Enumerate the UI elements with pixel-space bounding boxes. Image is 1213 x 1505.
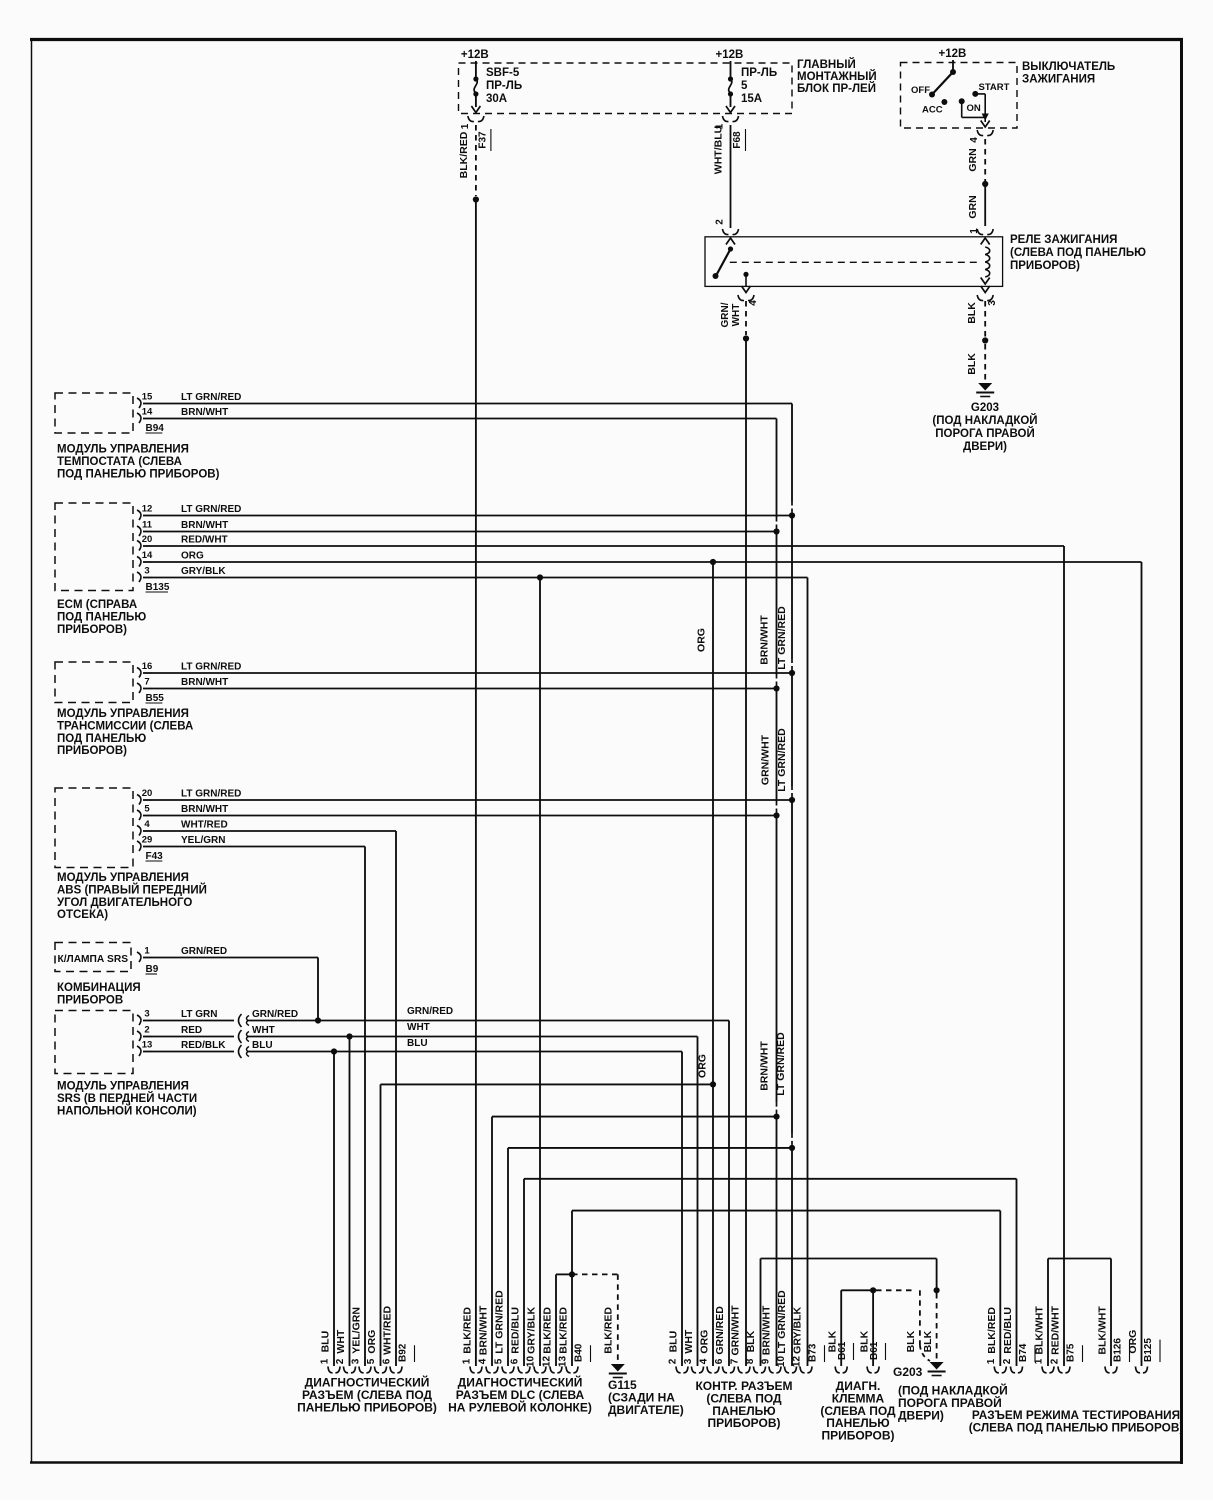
svg-text:B9: B9 [146,964,159,975]
svg-text:1: 1 [460,123,471,129]
svg-text:B94: B94 [146,423,165,434]
svg-text:BLK/RED: BLK/RED [458,131,470,178]
svg-text:3: 3 [144,1009,149,1020]
svg-text:ORG: ORG [696,628,708,652]
svg-text:YEL/GRN: YEL/GRN [351,1307,363,1354]
svg-text:6: 6 [382,1358,393,1364]
svg-text:МОДУЛЬ УПРАВЛЕНИЯ: МОДУЛЬ УПРАВЛЕНИЯ [57,872,189,884]
svg-text:LT GRN/RED: LT GRN/RED [181,504,241,515]
svg-text:6: 6 [714,1358,725,1364]
svg-text:BRN/WHT: BRN/WHT [181,407,228,418]
svg-text:3: 3 [144,566,149,577]
svg-text:1: 1 [1034,1358,1045,1364]
svg-text:ДВЕРИ): ДВЕРИ) [898,1408,944,1422]
svg-text:8: 8 [745,1358,756,1364]
svg-text:3: 3 [987,300,998,306]
svg-text:4: 4 [699,1358,710,1364]
svg-text:WHT/RED: WHT/RED [382,1305,394,1354]
svg-text:BRN/WHT: BRN/WHT [759,615,771,665]
svg-text:14: 14 [142,407,153,418]
svg-text:B55: B55 [146,693,165,704]
svg-text:13: 13 [558,1356,569,1368]
svg-text:GRN/RED: GRN/RED [252,1009,298,1020]
svg-text:BRN/WHT: BRN/WHT [761,1305,773,1355]
svg-text:BLK/WHT: BLK/WHT [1097,1306,1109,1355]
svg-text:УГОЛ ДВИГАТЕЛЬНОГО: УГОЛ ДВИГАТЕЛЬНОГО [57,897,192,909]
svg-text:WHT/BLU: WHT/BLU [713,126,725,174]
svg-text:ORG: ORG [1127,1330,1139,1354]
svg-text:12: 12 [542,1356,553,1368]
svg-text:7: 7 [730,1358,741,1364]
svg-text:BLU: BLU [407,1038,428,1049]
svg-text:BLK: BLK [966,353,978,375]
svg-text:(ПОД НАКЛАДКОЙ: (ПОД НАКЛАДКОЙ [932,414,1037,427]
svg-text:WHT: WHT [335,1329,347,1353]
svg-text:BLK/RED: BLK/RED [542,1307,554,1354]
svg-text:F68: F68 [732,131,743,149]
svg-text:ТРАНСМИССИИ (СЛЕВА: ТРАНСМИССИИ (СЛЕВА [57,720,193,732]
svg-text:RED/BLK: RED/BLK [181,1040,226,1051]
svg-text:ЗАЖИГАНИЯ: ЗАЖИГАНИЯ [1022,74,1095,86]
svg-text:3: 3 [683,1358,694,1364]
svg-text:ГЛАВНЫЙ: ГЛАВНЫЙ [797,58,856,71]
svg-text:GRY/BLK: GRY/BLK [792,1307,804,1354]
svg-text:ORG: ORG [699,1330,711,1354]
svg-text:GRN/WHT: GRN/WHT [760,734,772,785]
svg-text:B73: B73 [808,1343,819,1362]
svg-text:BLK/RED: BLK/RED [986,1307,998,1354]
svg-text:12: 12 [142,504,153,515]
svg-text:2: 2 [1050,1358,1061,1364]
svg-text:WHT: WHT [683,1329,695,1353]
svg-text:10: 10 [526,1356,537,1368]
svg-text:OFF: OFF [911,85,930,96]
svg-text:ПРИБОРОВ): ПРИБОРОВ) [57,624,127,636]
svg-text:BRN/WHT: BRN/WHT [181,520,228,531]
svg-text:GRY/BLK: GRY/BLK [181,566,226,577]
svg-text:ORG: ORG [181,551,204,562]
svg-text:ОТСЕКА): ОТСЕКА) [57,909,108,921]
svg-text:МОНТАЖНЫЙ: МОНТАЖНЫЙ [797,70,877,83]
svg-text:BRN/WHT: BRN/WHT [181,804,228,815]
svg-text:2: 2 [715,219,726,225]
svg-text:BLK: BLK [966,302,978,324]
svg-text:BLK/RED: BLK/RED [603,1307,615,1354]
svg-text:12: 12 [792,1356,803,1368]
svg-text:LT GRN/RED: LT GRN/RED [494,1290,506,1354]
svg-text:LT GRN/RED: LT GRN/RED [776,728,788,792]
svg-text:B74: B74 [1018,1343,1029,1362]
svg-text:КОМБИНАЦИЯ: КОМБИНАЦИЯ [57,982,141,994]
svg-text:GRN/: GRN/ [720,302,731,327]
svg-text:RED: RED [181,1025,202,1036]
svg-text:4: 4 [969,137,980,143]
svg-text:YEL/GRN: YEL/GRN [181,835,225,846]
svg-text:BLK/RED: BLK/RED [558,1307,570,1354]
svg-text:К/ЛАМПА SRS: К/ЛАМПА SRS [58,954,129,965]
svg-text:LT GRN/RED: LT GRN/RED [181,662,241,673]
svg-text:GRN: GRN [967,195,979,218]
svg-text:BRN/WHT: BRN/WHT [759,1041,771,1091]
svg-text:ПР-ЛЬ: ПР-ЛЬ [486,80,522,92]
svg-text:B61: B61 [837,1341,848,1360]
svg-text:ДВИГАТЕЛЕ): ДВИГАТЕЛЕ) [608,1403,684,1417]
svg-text:3: 3 [351,1358,362,1364]
svg-text:2: 2 [1002,1358,1013,1364]
svg-text:10: 10 [776,1356,787,1368]
svg-text:МОДУЛЬ УПРАВЛЕНИЯ: МОДУЛЬ УПРАВЛЕНИЯ [57,444,189,456]
svg-text:ON: ON [967,103,981,114]
svg-text:20: 20 [142,788,153,799]
svg-text:13: 13 [142,1040,153,1051]
svg-text:GRY/BLK: GRY/BLK [526,1307,538,1354]
svg-text:(СЛЕВА ПОД ПАНЕЛЬЮ ПРИБОРОВ): (СЛЕВА ПОД ПАНЕЛЬЮ ПРИБОРОВ) [969,1420,1184,1434]
svg-text:РЕЛЕ ЗАЖИГАНИЯ: РЕЛЕ ЗАЖИГАНИЯ [1010,234,1117,246]
svg-text:LT GRN/RED: LT GRN/RED [776,1290,788,1354]
svg-text:ПРИБОРОВ: ПРИБОРОВ [57,994,123,1006]
svg-text:29: 29 [142,835,153,846]
svg-text:SBF-5: SBF-5 [486,67,520,79]
svg-text:B135: B135 [146,582,170,593]
svg-text:ПР-ЛЬ: ПР-ЛЬ [741,67,777,79]
svg-text:ORG: ORG [697,1054,709,1078]
svg-text:9: 9 [761,1358,772,1364]
svg-text:1: 1 [462,1358,473,1364]
svg-text:ПРИБОРОВ): ПРИБОРОВ) [821,1429,894,1443]
svg-text:ПРИБОРОВ): ПРИБОРОВ) [1010,260,1080,272]
svg-text:2: 2 [335,1358,346,1364]
svg-text:RED/BLU: RED/BLU [1002,1307,1014,1354]
svg-text:ДВЕРИ): ДВЕРИ) [963,441,1007,453]
svg-text:BRN/WHT: BRN/WHT [181,677,228,688]
svg-text:2: 2 [668,1358,679,1364]
svg-text:ПРИБОРОВ): ПРИБОРОВ) [707,1416,780,1430]
svg-text:2: 2 [144,1025,149,1036]
svg-text:ПОРОГА ПРАВОЙ: ПОРОГА ПРАВОЙ [935,427,1034,440]
svg-text:GRN/RED: GRN/RED [714,1306,726,1355]
svg-text:GRN: GRN [967,148,979,171]
svg-text:BLU: BLU [252,1040,273,1051]
svg-text:BLU: BLU [668,1331,680,1353]
svg-text:B92: B92 [398,1343,409,1362]
svg-text:WHT: WHT [252,1025,275,1036]
svg-text:15А: 15А [741,93,762,105]
svg-text:LT GRN/RED: LT GRN/RED [775,1032,787,1096]
svg-text:5: 5 [144,804,150,815]
svg-text:RED/BLU: RED/BLU [510,1307,522,1354]
svg-text:1: 1 [986,1358,997,1364]
svg-text:LT GRN/RED: LT GRN/RED [181,392,241,403]
svg-text:B61: B61 [869,1341,880,1360]
svg-text:SRS (В ПЕРДНЕЙ ЧАСТИ: SRS (В ПЕРДНЕЙ ЧАСТИ [57,1092,197,1105]
svg-text:START: START [979,82,1010,93]
svg-text:WHT: WHT [731,304,742,327]
svg-text:LT GRN/RED: LT GRN/RED [181,789,241,800]
svg-text:5: 5 [366,1358,377,1364]
svg-text:+12В: +12В [461,49,489,61]
svg-text:1: 1 [144,946,150,957]
svg-text:ПОД ПАНЕЛЬЮ: ПОД ПАНЕЛЬЮ [57,733,146,745]
svg-text:НА РУЛЕВОЙ КОЛОНКЕ): НА РУЛЕВОЙ КОЛОНКЕ) [448,1399,592,1414]
svg-text:4: 4 [144,819,150,830]
svg-text:ПОД ПАНЕЛЬЮ: ПОД ПАНЕЛЬЮ [57,611,146,623]
svg-text:B75: B75 [1066,1343,1077,1362]
svg-text:1: 1 [320,1358,331,1364]
svg-text:ECM (СПРАВА: ECM (СПРАВА [57,599,137,611]
svg-text:F43: F43 [146,851,164,862]
svg-text:BLK: BLK [745,1330,757,1352]
svg-text:15: 15 [142,392,153,403]
svg-text:11: 11 [142,520,153,531]
svg-text:G203: G203 [971,402,999,414]
svg-text:GRN/RED: GRN/RED [407,1006,453,1017]
svg-text:4: 4 [478,1358,489,1364]
svg-text:RED/WHT: RED/WHT [1050,1305,1062,1355]
svg-text:+12В: +12В [716,49,744,61]
svg-text:BLK/WHT: BLK/WHT [1034,1306,1046,1355]
svg-text:ПРИБОРОВ): ПРИБОРОВ) [57,745,127,757]
svg-text:(СЛЕВА ПОД ПАНЕЛЬЮ: (СЛЕВА ПОД ПАНЕЛЬЮ [1010,247,1146,259]
svg-text:BLU: BLU [320,1331,332,1353]
svg-text:G203: G203 [893,1365,923,1379]
svg-text:4: 4 [748,300,759,306]
svg-text:5: 5 [741,80,748,92]
svg-text:ВЫКЛЮЧАТЕЛЬ: ВЫКЛЮЧАТЕЛЬ [1022,61,1115,73]
svg-text:GRN/RED: GRN/RED [181,946,227,957]
svg-text:BLK: BLK [922,1330,934,1352]
svg-text:WHT/RED: WHT/RED [181,820,228,831]
svg-text:B126: B126 [1113,1338,1124,1362]
svg-text:ТЕМПОСТАТА (СЛЕВА: ТЕМПОСТАТА (СЛЕВА [57,456,182,468]
svg-text:ПОД ПАНЕЛЬЮ ПРИБОРОВ): ПОД ПАНЕЛЬЮ ПРИБОРОВ) [57,468,220,480]
svg-text:ORG: ORG [366,1330,378,1354]
svg-text:14: 14 [142,550,153,561]
svg-text:ПАНЕЛЬЮ ПРИБОРОВ): ПАНЕЛЬЮ ПРИБОРОВ) [297,1400,437,1414]
svg-text:НАПОЛЬНОЙ КОНСОЛИ): НАПОЛЬНОЙ КОНСОЛИ) [57,1104,197,1117]
svg-text:LT GRN: LT GRN [181,1009,217,1020]
svg-text:ABS (ПРАВЫЙ ПЕРЕДНИЙ: ABS (ПРАВЫЙ ПЕРЕДНИЙ [57,883,207,896]
svg-text:20: 20 [142,534,153,545]
svg-text:B40: B40 [574,1343,585,1362]
svg-text:+12В: +12В [939,48,967,60]
svg-text:WHT: WHT [407,1022,430,1033]
svg-text:МОДУЛЬ УПРАВЛЕНИЯ: МОДУЛЬ УПРАВЛЕНИЯ [57,1081,189,1093]
svg-text:7: 7 [144,677,149,688]
svg-text:МОДУЛЬ УПРАВЛЕНИЯ: МОДУЛЬ УПРАВЛЕНИЯ [57,708,189,720]
svg-text:BLK: BLK [905,1330,917,1352]
svg-text:LT GRN/RED: LT GRN/RED [776,606,788,670]
svg-text:БЛОК ПР-ЛЕЙ: БЛОК ПР-ЛЕЙ [797,82,876,95]
svg-text:F37: F37 [477,131,488,149]
svg-text:16: 16 [142,661,153,672]
svg-text:BRN/WHT: BRN/WHT [478,1305,490,1355]
svg-text:ACC: ACC [922,105,943,116]
svg-text:5: 5 [494,1358,505,1364]
svg-text:GRN/WHT: GRN/WHT [730,1305,742,1356]
svg-text:B125: B125 [1143,1338,1154,1362]
svg-text:BLK/RED: BLK/RED [462,1307,474,1354]
svg-text:RED/WHT: RED/WHT [181,535,228,546]
svg-text:30А: 30А [486,93,507,105]
svg-text:6: 6 [510,1358,521,1364]
